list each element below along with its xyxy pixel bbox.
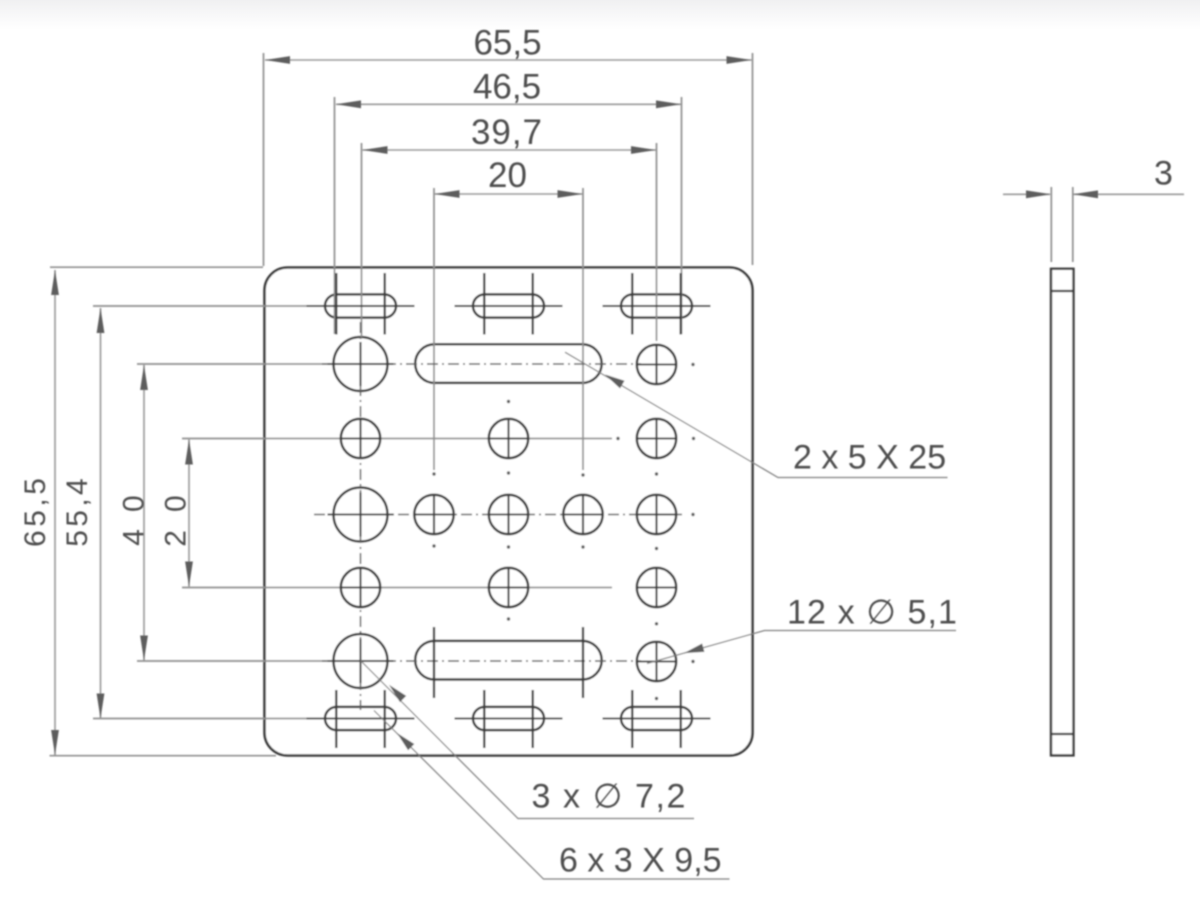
svg-text:20: 20 (160, 495, 193, 547)
extension line 39,7 right vertical (656, 143, 658, 341)
svg-text:12 x ∅ 5,1: 12 x ∅ 5,1 (787, 594, 958, 632)
extension line 65,5-left top horizontal (50, 266, 263, 268)
crosshair hole 7,2 row2 (328, 342, 394, 386)
slot 3x9,5 top-middle (473, 294, 544, 317)
dimension 46,5 top (336, 68, 681, 109)
extension line 55,4 bottom horizontal (93, 718, 340, 720)
svg-text:39,7: 39,7 (471, 113, 542, 152)
svg-text:46,5: 46,5 (473, 68, 541, 107)
hole 5,1 row4 middle (489, 495, 528, 534)
extension line 3 left (1050, 187, 1052, 262)
crosshair hole 7,2 row4 (328, 493, 394, 537)
hole 5,1 row4 right (637, 495, 676, 534)
crosshair hole row3 middle (488, 419, 530, 458)
svg-text:65,5: 65,5 (19, 478, 52, 547)
crosshair hole row5 middle (488, 568, 530, 607)
leader + label: 6 x 3 X 9,5 (small slots) (374, 711, 730, 880)
side view bottom edge line (1051, 733, 1074, 735)
long slot 5x25 upper (415, 344, 602, 383)
hole 5,1 row2 right (637, 345, 676, 384)
crosshair hole row3 left (340, 419, 382, 458)
svg-text:55,4: 55,4 (61, 478, 94, 547)
extension line 55,4 top horizontal (93, 305, 326, 307)
side view plate body (thickness 3) (1051, 269, 1074, 756)
slot 3x9,5 bottom-middle (473, 707, 544, 730)
svg-text:2 x 5 X 25: 2 x 5 X 25 (793, 439, 946, 477)
dimension 20 top (435, 156, 583, 198)
crosshair hole row4 mid-right (562, 494, 604, 536)
slot 3x9,5 bottom-right (621, 707, 692, 730)
hole 7,2 row6 left (334, 634, 388, 688)
hole 5,1 row3 middle (489, 419, 528, 458)
hole 5,1 row5 left (341, 568, 380, 607)
svg-text:3 x ∅ 7,2: 3 x ∅ 7,2 (532, 778, 688, 816)
hole 5,1 row4 mid-right (563, 495, 602, 534)
dimension 55,4 left (61, 308, 104, 719)
left column vertical dash-dot centerline (360, 322, 362, 710)
dimension 20 left (160, 440, 193, 587)
crosshair hole row4 right (636, 494, 678, 536)
centerlines of slot top-left (307, 273, 415, 335)
row2 horizontal dash-dot centerline through upper slot (322, 363, 641, 365)
centerlines of slot top-right (603, 273, 711, 335)
extension line 20-left bottom horizontal (182, 587, 612, 589)
hole 7,2 row2 left (334, 337, 388, 391)
slot 3x9,5 top-right (621, 294, 692, 317)
crosshair hole 5,1 row6 right (636, 642, 678, 681)
plate outline (front view 65,5 x 65,5) (265, 268, 753, 756)
dimension 3 side view (1003, 155, 1184, 199)
extension line 65,5-top right vertical (752, 53, 754, 265)
row4 horizontal dash-dot centerline (314, 514, 684, 516)
leader + label: 12 x diameter 5,1 (small holes) (647, 594, 958, 664)
centerlines of slot bottom-left (307, 690, 415, 748)
slot 3x9,5 bottom-left (325, 707, 396, 730)
centerlines of slot top-middle (455, 273, 563, 335)
crosshair hole 7,2 row6 (328, 639, 394, 683)
extension line 46,5 left vertical (334, 97, 336, 334)
svg-text:3: 3 (1154, 155, 1173, 193)
crosshair hole 5,1 row2 right (636, 345, 678, 384)
center mark dots (432, 363, 695, 700)
crosshair hole row3 right (636, 419, 678, 458)
dimension 39,7 top (363, 113, 657, 154)
svg-text:6 x 3 X 9,5: 6 x 3 X 9,5 (559, 842, 722, 880)
extension line 46,5 right vertical (681, 97, 683, 334)
extension line 65,5-left bottom horizontal (50, 755, 277, 757)
svg-text:20: 20 (488, 156, 527, 195)
hole 5,1 row5 middle (489, 568, 528, 607)
crosshair hole row4 mid-left (413, 494, 455, 536)
slot 3x9,5 top-left (325, 294, 396, 317)
crosshair hole row5 left (340, 568, 382, 607)
leader + label: 2 x 5 X 25 (long slots) (565, 352, 948, 477)
leader + label: 3 x diameter 7,2 (large holes) (361, 661, 695, 819)
dimension 40 left (118, 365, 151, 661)
hole 7,2 row4 left (334, 488, 388, 542)
dimension 65,5 left (19, 270, 59, 755)
hole 5,1 row5 right (637, 568, 676, 607)
svg-text:65,5: 65,5 (473, 24, 541, 63)
side view top edge line (1051, 290, 1074, 292)
extension line 40 bottom horizontal (137, 660, 333, 662)
extension line 20-left top horizontal (182, 438, 612, 440)
extension line 3 right (1072, 187, 1074, 262)
centerlines of slot bottom-middle (455, 690, 563, 748)
extension line 39,7 left vertical (361, 143, 363, 337)
extension line 65,5-top left vertical (263, 53, 265, 266)
extension line 20-top left vertical (433, 188, 435, 470)
hole 5,1 row6 right (637, 642, 676, 681)
centerlines of slot bottom-right (603, 690, 711, 748)
hole 5,1 row3 left (341, 419, 380, 458)
row6 horizontal dash-dot centerline through lower slot (322, 660, 641, 662)
extension line 40 top horizontal (137, 363, 333, 365)
extension line 20-top right vertical (582, 188, 584, 470)
hole 5,1 row4 mid-left (414, 495, 453, 534)
centerlines of lower long slot (434, 627, 583, 698)
dimension 65,5 top (265, 24, 752, 64)
long slot 5x25 lower (415, 641, 602, 680)
crosshair hole row4 middle (488, 494, 530, 536)
svg-text:40: 40 (118, 495, 151, 546)
crosshair hole row5 right (636, 568, 678, 607)
hole 5,1 row3 right (637, 419, 676, 458)
